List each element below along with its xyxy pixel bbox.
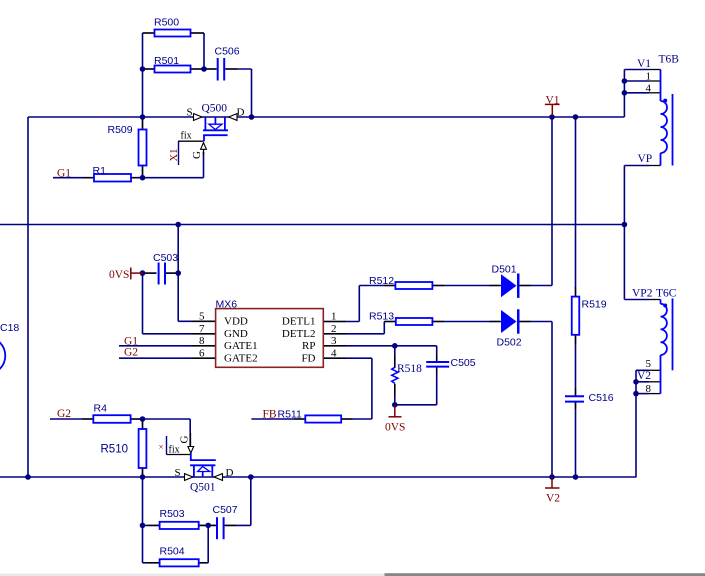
svg-text:8: 8 (646, 383, 652, 395)
svg-text:GATE1: GATE1 (224, 340, 258, 352)
svg-text:R504: R504 (160, 546, 185, 558)
svg-text:VDD: VDD (224, 316, 248, 328)
svg-text:C506: C506 (215, 46, 240, 58)
svg-text:D: D (237, 107, 245, 119)
svg-text:R513: R513 (369, 311, 394, 323)
svg-text:DETL1: DETL1 (282, 316, 316, 328)
svg-text:FD: FD (301, 353, 315, 365)
svg-text:R510: R510 (101, 444, 129, 456)
svg-text:MX6: MX6 (216, 299, 238, 311)
svg-text:5: 5 (646, 358, 652, 370)
svg-text:fix: fix (169, 445, 180, 456)
svg-text:4: 4 (331, 348, 337, 360)
svg-text:0VS: 0VS (385, 422, 405, 434)
svg-text:fix: fix (181, 131, 192, 142)
svg-text:VP2: VP2 (632, 288, 653, 300)
svg-text:G2: G2 (124, 347, 138, 359)
svg-text:DETL2: DETL2 (282, 328, 316, 340)
svg-text:0VS: 0VS (109, 269, 129, 281)
svg-text:R512: R512 (369, 275, 394, 287)
svg-text:S: S (187, 107, 193, 119)
svg-text:VP: VP (638, 153, 653, 165)
svg-text:8: 8 (199, 335, 205, 347)
svg-text:R1: R1 (93, 165, 107, 177)
svg-text:R511: R511 (278, 409, 302, 421)
svg-text:D: D (226, 467, 234, 479)
svg-text:G: G (179, 436, 191, 444)
svg-text:X1: X1 (169, 149, 180, 162)
svg-text:V1: V1 (637, 58, 651, 70)
svg-text:G: G (191, 151, 203, 159)
svg-text:7: 7 (199, 323, 205, 335)
svg-text:Q501: Q501 (190, 482, 216, 494)
svg-text:GATE2: GATE2 (224, 353, 258, 365)
svg-text:4: 4 (646, 82, 652, 94)
svg-text:C18: C18 (0, 322, 19, 334)
svg-text:3: 3 (331, 335, 337, 347)
svg-text:C516: C516 (589, 392, 614, 404)
svg-text:T6C: T6C (656, 288, 677, 300)
svg-text:C507: C507 (213, 504, 238, 516)
svg-text:R519: R519 (582, 299, 607, 311)
svg-text:FB: FB (263, 409, 277, 421)
svg-text:1: 1 (331, 310, 337, 322)
svg-text:5: 5 (199, 310, 205, 322)
svg-text:V2: V2 (637, 370, 651, 382)
svg-text:S: S (175, 467, 181, 479)
svg-text:2: 2 (331, 323, 337, 335)
svg-text:G2: G2 (57, 408, 71, 420)
svg-text:R4: R4 (94, 403, 108, 415)
svg-text:D502: D502 (497, 337, 522, 349)
svg-text:1: 1 (646, 71, 652, 83)
svg-text:C505: C505 (451, 357, 476, 369)
svg-text:D501: D501 (492, 264, 517, 276)
svg-text:V2: V2 (546, 493, 560, 505)
svg-text:RP: RP (302, 340, 315, 352)
svg-text:×: × (159, 442, 164, 452)
svg-text:R503: R503 (160, 508, 185, 520)
svg-text:G1: G1 (57, 168, 71, 180)
svg-text:R509: R509 (108, 124, 133, 136)
svg-text:GND: GND (224, 328, 248, 340)
svg-text:C503: C503 (153, 252, 178, 264)
svg-text:T6B: T6B (659, 54, 680, 66)
svg-text:V1: V1 (546, 95, 560, 107)
svg-text:R501: R501 (154, 55, 179, 67)
svg-text:R518: R518 (397, 363, 422, 375)
svg-text:Q500: Q500 (202, 103, 228, 115)
svg-text:R500: R500 (154, 17, 179, 29)
svg-text:6: 6 (199, 348, 205, 360)
